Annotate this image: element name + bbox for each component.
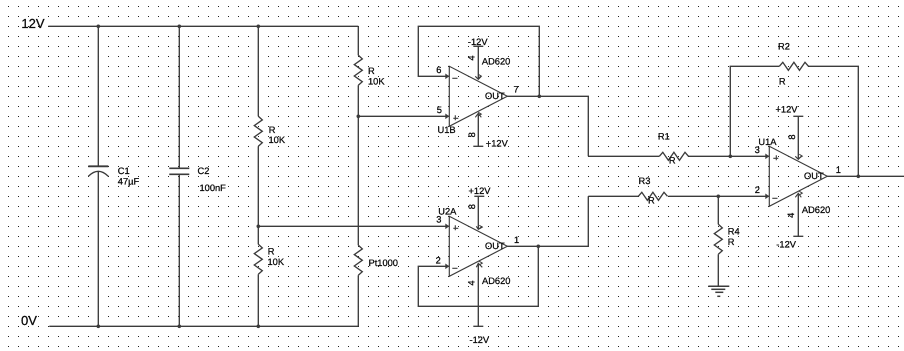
svg-text:OUT: OUT bbox=[485, 91, 505, 101]
svg-text:10K: 10K bbox=[368, 77, 385, 87]
svg-text:8: 8 bbox=[467, 132, 477, 137]
svg-text:C2: C2 bbox=[198, 166, 210, 176]
svg-text:R: R bbox=[269, 125, 276, 135]
svg-text:7: 7 bbox=[514, 85, 519, 95]
svg-text:OUT: OUT bbox=[804, 171, 824, 181]
svg-text:C1: C1 bbox=[118, 166, 130, 176]
svg-text:8: 8 bbox=[787, 134, 797, 139]
svg-text:+12V: +12V bbox=[469, 186, 492, 196]
svg-text:R4: R4 bbox=[728, 226, 740, 236]
svg-text:OUT: OUT bbox=[485, 241, 505, 251]
svg-text:47µF: 47µF bbox=[118, 176, 140, 186]
svg-text:-12V: -12V bbox=[470, 335, 490, 345]
svg-text:R1: R1 bbox=[658, 132, 670, 142]
svg-text:1: 1 bbox=[836, 165, 841, 175]
svg-text:R: R bbox=[779, 77, 786, 87]
svg-text:12V: 12V bbox=[21, 16, 44, 31]
svg-text:100nF: 100nF bbox=[200, 183, 227, 193]
svg-text:+12V: +12V bbox=[486, 138, 509, 148]
svg-text:2: 2 bbox=[436, 255, 441, 265]
svg-text:0V: 0V bbox=[21, 313, 37, 328]
svg-text:1: 1 bbox=[514, 235, 519, 245]
svg-text:AD620: AD620 bbox=[802, 205, 830, 215]
svg-text:U1B: U1B bbox=[438, 125, 456, 135]
svg-text:U1A: U1A bbox=[758, 137, 777, 147]
svg-text:4: 4 bbox=[466, 280, 476, 285]
svg-text:AD620: AD620 bbox=[482, 57, 510, 67]
svg-text:+12V: +12V bbox=[776, 105, 799, 115]
svg-text:R: R bbox=[728, 237, 735, 247]
svg-text:10K: 10K bbox=[268, 257, 285, 267]
svg-text:-12V: -12V bbox=[468, 37, 488, 47]
svg-text:R: R bbox=[669, 155, 676, 165]
svg-text:R2: R2 bbox=[778, 42, 790, 52]
svg-text:R: R bbox=[268, 246, 275, 256]
svg-text:Pt1000: Pt1000 bbox=[369, 258, 398, 268]
svg-text:4: 4 bbox=[467, 55, 477, 60]
svg-text:AD620: AD620 bbox=[482, 276, 510, 286]
svg-text:4: 4 bbox=[786, 213, 796, 218]
svg-text:5: 5 bbox=[437, 105, 442, 115]
svg-text:R: R bbox=[368, 66, 375, 76]
svg-text:-12V: -12V bbox=[776, 240, 796, 250]
svg-text:8: 8 bbox=[467, 204, 477, 209]
svg-text:2: 2 bbox=[755, 185, 760, 195]
svg-text:R: R bbox=[648, 195, 655, 205]
svg-text:R3: R3 bbox=[639, 176, 651, 186]
svg-text:6: 6 bbox=[436, 65, 441, 75]
svg-text:U2A: U2A bbox=[438, 206, 457, 216]
svg-text:10K: 10K bbox=[269, 135, 286, 145]
